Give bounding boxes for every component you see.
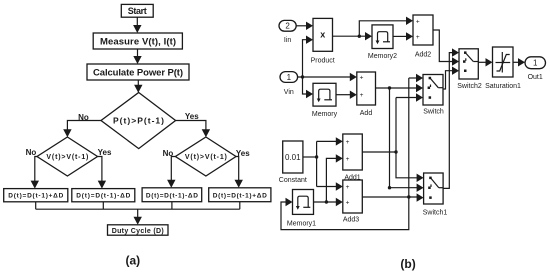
svg-text:+: + [416,34,420,41]
sum block Add3 [343,180,363,224]
svg-text:2: 2 [285,22,290,31]
svg-text:D(t)=D(t-1)-ΔD: D(t)=D(t-1)-ΔD [76,193,130,200]
switch block Switch2 [457,49,482,90]
svg-text:1: 1 [287,73,292,82]
svg-text:Iin: Iin [284,37,292,44]
svg-text:D(t)=D(t-1)+ΔD: D(t)=D(t-1)+ΔD [8,193,63,200]
switch block Switch1 [423,173,448,217]
svg-text:+: + [346,139,350,146]
svg-text:(b): (b) [400,257,415,271]
svg-text:Memory: Memory [312,111,338,118]
svg-text:(a): (a) [125,254,140,268]
switch block Switch [423,75,444,116]
sum block Add2 [413,15,433,59]
diamond V1 V(t)>V(t-1) [37,137,98,176]
memory block Memory1 [287,190,316,228]
svg-text:D(t)=D(t-1)-ΔD: D(t)=D(t-1)-ΔD [146,192,198,199]
inport 2 Iin [279,20,296,44]
svg-text:Add2: Add2 [415,52,431,59]
wire Add3 out net to Switch1 in3, Switch in1 and Memory1 feedback [281,74,424,230]
svg-text:Add3: Add3 [343,217,359,224]
wire Add1 out net to Switch in3 and Switch1 in1 [362,93,423,182]
svg-text:Saturation1: Saturation1 [485,83,521,90]
wire Memory out to Add in2 [336,91,357,99]
svg-text:Measure V(t), I(t): Measure V(t), I(t) [100,36,176,47]
svg-text:V(t)>V(t-1): V(t)>V(t-1) [46,154,88,161]
inport 1 Vin [280,72,298,96]
svg-text:P(t)>P(t-1): P(t)>P(t-1) [113,116,164,126]
constant block 0.01 [279,141,307,184]
wire dP net: Add2 out to Switch2 in2 [433,30,459,66]
sum block Add [357,72,376,117]
wire Switch2 out to Saturation1 [478,58,492,66]
wire V2 Yes to box4 [235,157,243,188]
svg-text:Product: Product [311,58,335,65]
svg-text:+: + [346,156,350,163]
wire collector to duty cycle [134,209,142,225]
wire Switch out to Switch2 in3 [443,67,459,90]
svg-text:Switch2: Switch2 [457,83,482,90]
svg-text:D(t)=D(t-1)+ΔD: D(t)=D(t-1)+ΔD [213,192,267,199]
memory block Memory [312,83,338,118]
svg-text:No: No [26,148,37,157]
svg-text:Memory1: Memory1 [287,221,316,228]
svg-text:Yes: Yes [185,112,199,121]
wire Memory2 out to Add2 in2 [393,32,413,40]
svg-text:Memory2: Memory2 [368,53,397,60]
wire Iin to Product [296,22,313,30]
svg-text:+: + [346,200,350,207]
wire No branch to diamond V1 [63,121,101,138]
svg-text:0.01: 0.01 [285,153,301,162]
wire V2 No to box3 [167,157,175,188]
svg-text:Vin: Vin [284,89,294,96]
box3 D(t)=D(t-1)-dD [142,188,202,202]
wire Vin net to Product, Memory, Add [298,36,357,99]
svg-text:1: 1 [533,59,538,68]
box2 D(t)=D(t-1)-dD [72,189,135,202]
diamond V2 V(t)>V(t-1) [175,137,236,176]
decision diamond P(t)>P(t-1) [101,93,176,149]
svg-text:Add: Add [360,110,373,117]
svg-text:Out1: Out1 [528,74,543,81]
measure box [93,33,182,49]
wire Saturation1 out to Out1 [513,58,525,66]
duty cycle box [108,225,169,235]
svg-text:+: + [346,184,350,191]
svg-text:Start: Start [128,6,147,16]
svg-text:Constant: Constant [279,177,307,184]
svg-text:Duty Cycle (D): Duty Cycle (D) [112,228,164,235]
saturation block Saturation1 [485,47,521,90]
svg-text:+: + [360,92,364,99]
wire Switch1 out to Switch2 in1 [443,48,459,188]
collector wires from boxes [36,202,240,210]
svg-text:Switch1: Switch1 [423,210,448,217]
outport 1 Out1 [525,57,546,81]
svg-text:Switch: Switch [423,109,444,116]
memory block Memory2 [368,25,397,60]
svg-text:+: + [360,75,364,82]
wire measure to calculate [133,49,141,64]
wire start to measure [133,17,141,33]
wire calculate to decision [134,80,142,93]
wire Constant net to Add1 in1 and Add3 in1 [303,137,343,191]
svg-text:x: x [320,30,325,40]
wire V1 No to box1 [31,157,39,189]
wire Yes branch to diamond V2 [176,121,211,138]
wire Product out to Memory2 and Add2 in1 [333,17,414,41]
svg-text:Yes: Yes [98,148,112,157]
start box [121,4,153,17]
svg-text:V(t)>V(t-1): V(t)>V(t-1) [185,154,227,161]
calculate power box [87,64,189,80]
wire Memory1 out net to Add3 in2 and Add1 in2 [314,154,343,206]
product block U: Product [311,18,335,64]
sum block Add1 [343,134,363,181]
box4 D(t)=D(t-1)+dD [209,188,271,202]
box1 D(t)=D(t-1)+dD [4,189,68,202]
svg-text:+: + [416,19,420,26]
svg-text:Calculate Power P(t): Calculate Power P(t) [93,67,183,78]
wire V1 Yes to box2 [98,157,107,189]
wire dV net: Add out to Switch in2 and Switch1 in2 [376,84,424,192]
